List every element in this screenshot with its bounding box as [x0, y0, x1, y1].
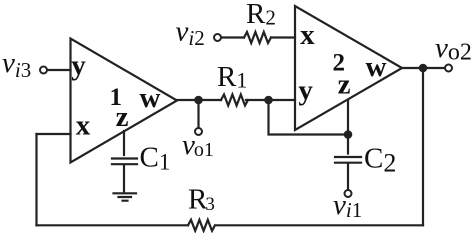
resistor R1	[221, 95, 248, 106]
capacitor C1	[112, 159, 137, 165]
wire x of U1 to left rail	[37, 133, 71, 135]
wire R2 to x of U2	[271, 36, 295, 38]
svg-text:y: y	[298, 75, 313, 107]
resistor R3	[188, 220, 215, 231]
wire R1 to y of U2	[246, 99, 295, 101]
svg-text:y: y	[71, 50, 86, 82]
svg-text:1: 1	[110, 84, 123, 111]
terminal vi1	[345, 190, 352, 197]
wire z of U2 down to node C	[347, 101, 349, 154]
node C junction dot	[344, 130, 353, 139]
svg-text:x: x	[76, 110, 91, 142]
ground	[114, 193, 137, 200]
wire bottom left to R3	[37, 224, 189, 226]
op-amp U2 (conveyor 2 triangle)	[295, 6, 402, 130]
wire w of U2 to vo2 terminal	[402, 67, 445, 69]
terminal vi3	[40, 67, 47, 74]
wire R3 to right rail	[217, 224, 423, 226]
svg-text:w: w	[140, 82, 161, 114]
wire w of U1 to R1	[177, 99, 221, 101]
svg-text:2: 2	[332, 49, 345, 76]
terminal vi2	[214, 34, 221, 41]
wire node A down to vo1 terminal	[197, 100, 199, 128]
node B junction dot	[264, 96, 273, 105]
resistor R2	[244, 32, 271, 43]
svg-text:x: x	[300, 19, 315, 51]
node A junction dot	[194, 96, 203, 105]
terminal vo2	[445, 65, 452, 72]
op-amp U1 (conveyor 1 triangle)	[71, 39, 178, 163]
svg-text:w: w	[366, 51, 387, 83]
svg-text:C2: C2	[364, 143, 396, 178]
wire vi3 to y of U1	[47, 69, 71, 71]
wire vi2 terminal to R2	[221, 36, 244, 38]
wire C1 to ground	[123, 165, 125, 192]
wire node B down and right	[269, 100, 349, 135]
wire left rail down	[35, 134, 37, 225]
wire right rail up to vo2 node	[422, 68, 424, 225]
node D junction dot (vo2)	[419, 64, 428, 73]
terminal vo1	[195, 128, 202, 135]
wire z of U1 down to C1	[123, 131, 125, 155]
wire C2 to vi1 terminal	[347, 164, 349, 190]
capacitor C2	[335, 157, 361, 163]
